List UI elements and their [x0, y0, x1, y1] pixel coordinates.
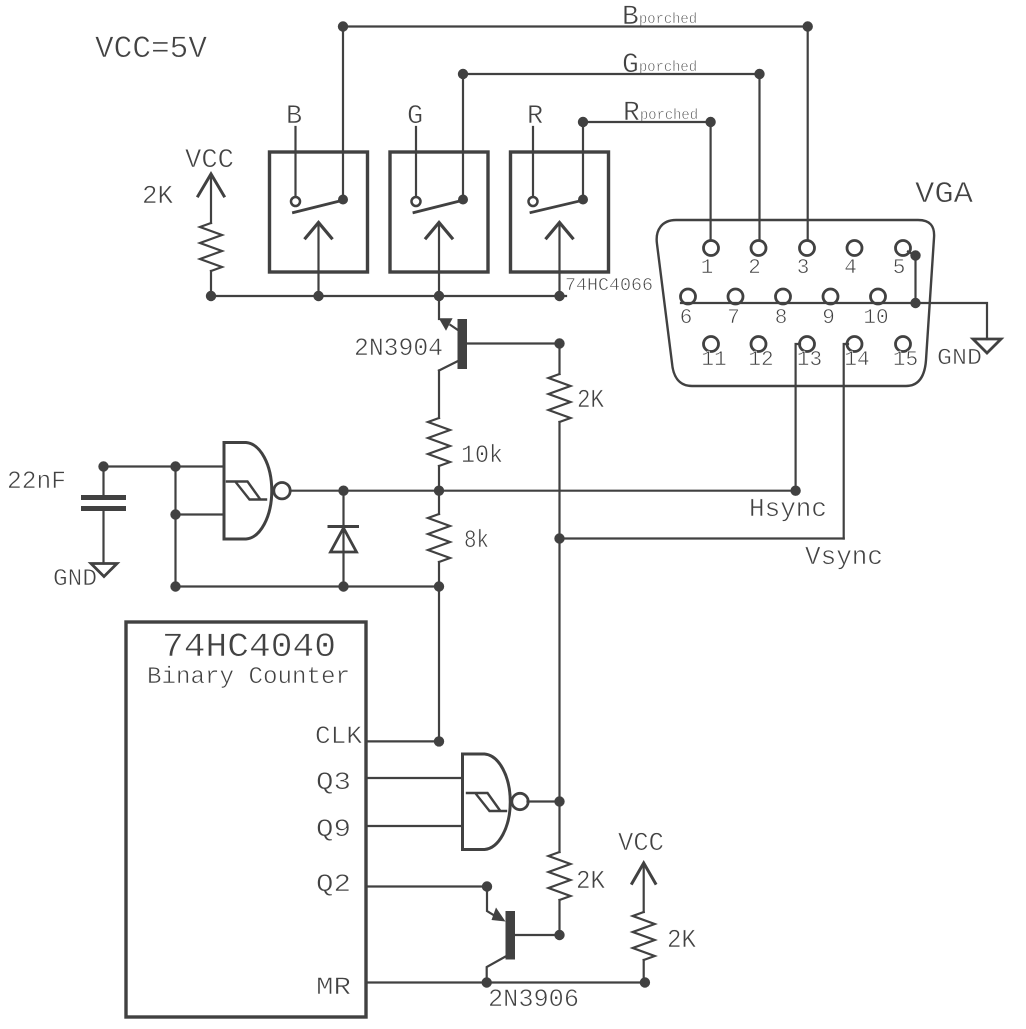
junction 10k-8k node [434, 486, 444, 496]
svg-text:1: 1 [701, 257, 714, 280]
power symbol VCC left [185, 146, 234, 223]
junction Rporched left [578, 117, 588, 127]
switch R lever [531, 200, 586, 213]
svg-text:6: 6 [680, 307, 693, 330]
pin 7 [727, 289, 743, 330]
junction Vsync node [554, 533, 564, 543]
svg-text:B: B [622, 2, 639, 33]
svg-text:15: 15 [893, 349, 918, 372]
svg-text:GND: GND [937, 345, 982, 371]
svg-text:2K: 2K [667, 925, 696, 955]
switch B lever [294, 200, 347, 213]
wire Vsync [560, 537, 844, 539]
pin 4 [844, 241, 862, 281]
svg-text:3: 3 [797, 257, 810, 280]
svg-text:9: 9 [822, 307, 835, 330]
resistor 10k [428, 418, 450, 466]
wire Gporched to pin 2 [758, 74, 760, 241]
svg-text:13: 13 [797, 349, 822, 372]
svg-text:2N3904: 2N3904 [354, 334, 443, 363]
resistor 2K left [200, 223, 222, 271]
analog switch R box (74HC4066) [511, 152, 609, 272]
wire Rporched to R switch [582, 122, 584, 200]
wire feedback vertical [174, 467, 176, 587]
svg-text:VGA: VGA [915, 178, 973, 212]
wire pin 5 to ground row [914, 256, 916, 304]
wire Q9 [366, 825, 463, 827]
wire bottom rail [176, 585, 440, 587]
IC U2 74HC4040 binary counter box [126, 622, 366, 1017]
junction feedback bottom [170, 581, 180, 591]
svg-text:2K: 2K [577, 385, 604, 415]
wire pin 14 Vsync drop [844, 344, 848, 539]
resistor 2K pullup right [633, 912, 655, 960]
junction Bporched left [338, 21, 348, 31]
wire nand1 input bottom [176, 513, 225, 515]
svg-text:11: 11 [701, 349, 726, 372]
svg-text:5: 5 [893, 257, 906, 280]
junction Bporched right [803, 21, 813, 31]
pin 3 [797, 241, 815, 281]
resistor 2K nand2 [549, 852, 571, 900]
connector VGA outline [657, 220, 934, 386]
junction Q2 base node [554, 930, 564, 940]
svg-text:Hsync: Hsync [749, 494, 827, 524]
wire Bporched to pin 3 [807, 27, 809, 241]
svg-text:Q2: Q2 [316, 870, 351, 899]
svg-text:4: 4 [844, 257, 857, 280]
svg-text:10: 10 [863, 307, 888, 330]
wire ground row to GND [916, 303, 988, 339]
junction rail at B [313, 291, 323, 301]
analog switch G box (74HC4066) [390, 152, 488, 272]
switch G lever [414, 200, 466, 213]
wire ground row pins 6-10 [681, 302, 916, 304]
resistor 2K base [549, 374, 571, 422]
junction rail at 2K [206, 291, 216, 301]
wire 8k node down to CLK [438, 587, 440, 742]
pin 1 [701, 241, 719, 281]
wire Q1 base to 2K [467, 342, 560, 344]
wire Rporched horizontal [583, 121, 711, 123]
pin 12 [748, 337, 773, 373]
svg-text:2K: 2K [142, 181, 173, 211]
wire pin 13 Hsync drop [796, 344, 800, 491]
svg-text:22nF: 22nF [7, 467, 66, 496]
net label Bporched [622, 2, 697, 33]
svg-text:Q9: Q9 [316, 815, 351, 844]
svg-text:14: 14 [844, 349, 869, 372]
junction bottom rail at diode [338, 581, 348, 591]
junction rail at G [434, 291, 444, 301]
wire pin 5 stub [908, 252, 914, 256]
svg-text:8: 8 [775, 307, 788, 330]
pin 2 [748, 241, 766, 281]
svg-text:74HC4066: 74HC4066 [565, 276, 653, 296]
svg-text:Vsync: Vsync [805, 542, 883, 572]
svg-text:7: 7 [727, 307, 740, 330]
wire Q1 collector to 10k [438, 371, 440, 419]
svg-text:12: 12 [748, 349, 773, 372]
transistor Q2 2N3906 [487, 887, 579, 1015]
nand gate U3 (Schmitt) [463, 754, 529, 850]
wire Q3 [366, 777, 463, 779]
junction Gporched right [754, 69, 764, 79]
junction Hsync at diode [338, 486, 348, 496]
pin 11 [701, 337, 726, 373]
wire 2K base down long [558, 422, 560, 852]
switch R pole circle [529, 197, 538, 206]
pin 6 [680, 289, 696, 330]
net label Rporched [623, 98, 698, 129]
junction CLK [434, 736, 444, 746]
wire 2K left to rail [210, 271, 212, 296]
wire Q2 base [515, 934, 560, 936]
analog switch B box (74HC4066) [270, 152, 368, 272]
wire CLK [366, 740, 439, 742]
svg-text:R: R [527, 102, 543, 132]
pin 8 [775, 289, 791, 330]
svg-text:Q3: Q3 [316, 768, 351, 797]
svg-text:8k: 8k [464, 526, 489, 555]
junction nand2 output [554, 796, 564, 806]
svg-text:Binary Counter: Binary Counter [147, 664, 350, 691]
wire B input [294, 127, 296, 197]
transistor Q1 2N3904 [354, 296, 467, 371]
junction Rporched right [705, 117, 715, 127]
junction cap top [98, 461, 108, 471]
switch R control arrow [547, 223, 573, 239]
capacitor C1 22nF [84, 467, 124, 564]
ground symbol right [937, 339, 1001, 371]
junction Hsync at pin13 drop [790, 486, 800, 496]
switch B control arrow [306, 223, 332, 239]
pin 14 [844, 337, 869, 373]
wire cap to nand input [104, 465, 225, 467]
svg-text:2: 2 [748, 257, 761, 280]
wire 2K nand2 to Q2 base node [558, 900, 560, 935]
svg-text:MR: MR [316, 973, 351, 1002]
wire control rail [211, 295, 566, 297]
switch G pole circle [412, 197, 421, 206]
wire G control to rail [438, 226, 440, 296]
pin 10 [863, 289, 888, 330]
svg-text:VCC=5V: VCC=5V [95, 32, 207, 67]
junction MR at 2K [640, 977, 650, 987]
svg-text:VCC: VCC [618, 828, 664, 858]
switch B throw contact [338, 195, 348, 205]
wire base node down [558, 344, 560, 375]
power symbol VCC right [618, 828, 664, 912]
svg-text:B: B [286, 102, 302, 132]
svg-text:G: G [622, 50, 639, 81]
switch G control arrow [426, 223, 452, 239]
switch R throw contact [578, 195, 588, 205]
svg-text:10k: 10k [461, 441, 503, 470]
junction nand1 input bottom [170, 509, 180, 519]
wire 8k to bottom rail [438, 562, 440, 587]
switch B pole circle [291, 197, 300, 206]
svg-text:74HC4040: 74HC4040 [162, 629, 336, 667]
resistor 8k [428, 491, 489, 562]
wire Gporched horizontal [463, 73, 760, 75]
pin 5 [893, 241, 911, 281]
junction bottom rail at 8k [434, 581, 444, 591]
junction ground row [910, 298, 920, 308]
wire Hsync [289, 490, 796, 492]
junction Q1 base node [554, 338, 564, 348]
pin 13 [797, 337, 822, 373]
wire R control to rail [558, 226, 560, 296]
junction pin 5 [910, 250, 920, 260]
wire Rporched to pin 1 [709, 122, 711, 241]
diode D1 [329, 491, 358, 587]
junction MR at Q2 collector [482, 977, 492, 987]
svg-text:2K: 2K [576, 866, 605, 896]
net label Gporched [622, 50, 697, 81]
junction nand1 input top [170, 461, 180, 471]
junction Gporched left [458, 69, 468, 79]
wire 10k to Hsync node [438, 466, 440, 491]
wire Bporched to B switch [342, 27, 344, 200]
wire 2K right to MR [643, 960, 645, 983]
ground symbol left [53, 564, 117, 594]
wire Q2 [366, 885, 487, 887]
svg-text:CLK: CLK [315, 722, 362, 751]
wire MR [366, 981, 645, 983]
wire Gporched to G switch [462, 74, 464, 200]
svg-text:R: R [623, 98, 640, 129]
junction Q2 [482, 881, 492, 891]
wire R input [532, 127, 534, 197]
pin 15 [893, 337, 918, 373]
pin 9 [822, 289, 838, 330]
wire B control to rail [317, 226, 319, 296]
svg-text:2N3906: 2N3906 [488, 985, 579, 1014]
wire nand2 output [528, 800, 560, 802]
wire Bporched horizontal [343, 25, 808, 27]
junction rail at R [554, 291, 564, 301]
switch G throw contact [458, 195, 468, 205]
nand gate U1 (Schmitt) [224, 443, 290, 540]
svg-text:VCC: VCC [185, 146, 234, 176]
wire G input [415, 127, 417, 197]
svg-text:GND: GND [53, 566, 97, 593]
